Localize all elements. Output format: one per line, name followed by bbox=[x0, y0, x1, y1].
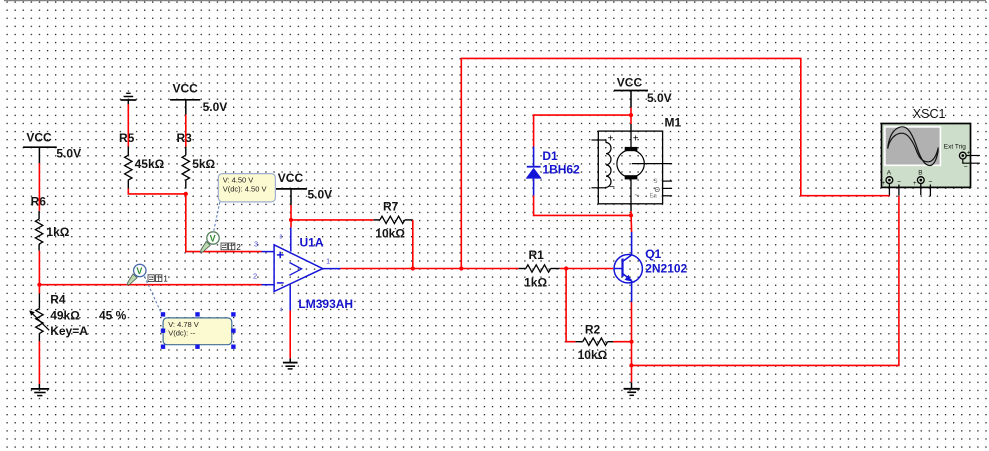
resistor R5 bbox=[119, 131, 165, 189]
svg-text:V: V bbox=[210, 233, 216, 243]
probe 2 tooltip bbox=[218, 174, 275, 202]
svg-text:10kΩ: 10kΩ bbox=[578, 348, 608, 362]
probe 2 (on node B wire) bbox=[200, 232, 219, 253]
svg-text:VCC: VCC bbox=[617, 76, 643, 90]
ground (above R5) bbox=[121, 93, 137, 104]
power VCC net symbol (feeds R3) bbox=[170, 82, 227, 115]
junction R7/output bbox=[411, 266, 415, 270]
svg-text:Ea: Ea bbox=[650, 194, 658, 200]
probe 1 label bbox=[148, 275, 168, 284]
svg-text:+: + bbox=[913, 181, 917, 187]
node A junction bbox=[37, 283, 41, 287]
svg-text:2: 2 bbox=[236, 243, 241, 252]
wire R2 to emitter bbox=[613, 341, 631, 343]
svg-text:8: 8 bbox=[280, 235, 283, 241]
ground (below R4) bbox=[31, 384, 49, 396]
diode D1 bbox=[526, 147, 580, 196]
wire scope A- to emitter node bbox=[632, 196, 899, 366]
svg-text:V: 4.50 V: V: 4.50 V bbox=[223, 176, 254, 185]
wire R7 to output node bbox=[412, 220, 414, 269]
node C junction (op-amp VCC / R7) bbox=[289, 218, 293, 222]
svg-text:−: − bbox=[928, 178, 932, 185]
svg-text:V(dc): 4.50 V: V(dc): 4.50 V bbox=[223, 185, 267, 194]
svg-text:+: + bbox=[608, 134, 614, 145]
svg-text:+: + bbox=[633, 134, 639, 145]
resistor R1 bbox=[519, 248, 560, 289]
svg-text:1BH62: 1BH62 bbox=[542, 162, 580, 176]
svg-text:R1: R1 bbox=[529, 248, 545, 262]
svg-text:3: 3 bbox=[254, 240, 258, 249]
power VCC net symbol (motor supply) bbox=[614, 76, 672, 108]
wire R1 to base node bbox=[560, 268, 613, 270]
svg-text:B: B bbox=[918, 169, 922, 176]
svg-text:LM393AH: LM393AH bbox=[298, 297, 353, 311]
svg-text:V: V bbox=[136, 266, 142, 276]
wire R5 bottom to node B bbox=[128, 189, 186, 194]
wire node B to op-amp pin 3 bbox=[186, 194, 262, 252]
svg-text:1kΩ: 1kΩ bbox=[46, 225, 69, 239]
svg-text:1: 1 bbox=[326, 257, 330, 266]
svg-text:R4: R4 bbox=[50, 292, 66, 306]
svg-text:1: 1 bbox=[163, 275, 168, 284]
svg-text:49kΩ: 49kΩ bbox=[50, 309, 80, 323]
svg-text:A: A bbox=[887, 169, 892, 176]
svg-text:45kΩ: 45kΩ bbox=[135, 157, 165, 171]
ground (op-amp) bbox=[283, 358, 298, 369]
svg-text:R3: R3 bbox=[177, 131, 193, 145]
svg-text:XSC1: XSC1 bbox=[913, 107, 946, 121]
svg-text:5.0V: 5.0V bbox=[308, 188, 333, 202]
svg-text:5kΩ: 5kΩ bbox=[192, 157, 215, 171]
svg-text:2N2102: 2N2102 bbox=[645, 262, 687, 276]
svg-text:−: − bbox=[897, 178, 901, 185]
transistor Q1 2N2102 bbox=[614, 232, 688, 302]
oscilloscope XSC1 bbox=[882, 107, 980, 197]
svg-text:D1: D1 bbox=[542, 149, 558, 163]
svg-text:U1A: U1A bbox=[300, 235, 324, 249]
power VCC net symbol (left, feeds R6) bbox=[23, 131, 81, 164]
svg-text:5.0V: 5.0V bbox=[203, 100, 228, 114]
wire VCC to R3 bbox=[185, 115, 187, 147]
svg-text:5.0V: 5.0V bbox=[647, 91, 672, 105]
wire node A to op-amp pin 2 bbox=[39, 284, 261, 286]
resistor R3 bbox=[177, 131, 216, 189]
svg-text:Q1: Q1 bbox=[645, 247, 661, 261]
svg-text:M1: M1 bbox=[665, 115, 682, 129]
svg-text:V(dc): --: V(dc): -- bbox=[168, 329, 196, 338]
svg-text:VCC: VCC bbox=[26, 131, 52, 145]
potentiometer R4 bbox=[29, 292, 126, 341]
svg-text:R7: R7 bbox=[383, 199, 399, 213]
resistor R2 bbox=[575, 323, 613, 363]
wire VCC to R6 bbox=[38, 163, 40, 211]
svg-text:+: + bbox=[882, 181, 886, 187]
resistor R7 bbox=[373, 199, 413, 240]
svg-text:S: S bbox=[654, 179, 658, 185]
wire output node to scope A+ bbox=[461, 58, 889, 268]
junction motor VCC / D1 bbox=[629, 113, 633, 117]
svg-text:−: − bbox=[609, 182, 615, 193]
wire op-amp ground bbox=[289, 310, 291, 358]
wire R6 to node A bbox=[38, 251, 40, 294]
probe 2 tooltip leader bbox=[214, 202, 220, 232]
svg-text:~: ~ bbox=[635, 193, 639, 200]
junction scope feed/output bbox=[459, 266, 463, 270]
svg-text:Key=A: Key=A bbox=[50, 324, 88, 338]
wire emitter to ground bbox=[631, 302, 633, 382]
wire output to R1 bbox=[341, 268, 519, 270]
probe 1 tooltip leader bbox=[145, 277, 164, 318]
svg-text:VCC: VCC bbox=[173, 82, 199, 96]
resistor R6 bbox=[31, 195, 70, 251]
op-amp U1A LM393AH bbox=[253, 227, 353, 313]
power VCC net symbol (op-amp supply) bbox=[275, 171, 332, 205]
svg-text:2: 2 bbox=[253, 272, 257, 281]
svg-text:R5: R5 bbox=[119, 131, 135, 145]
junction emitter/R2 bbox=[629, 340, 633, 344]
junction D1 / motor bottom bbox=[629, 213, 633, 217]
ground (emitter) bbox=[624, 382, 640, 395]
probe 1 tooltip (selected) bbox=[161, 312, 236, 349]
svg-text:10kΩ: 10kΩ bbox=[375, 226, 405, 240]
wire VCC to motor bbox=[630, 108, 632, 132]
svg-text:1kΩ: 1kΩ bbox=[524, 276, 547, 290]
probe 2 label bbox=[221, 243, 241, 252]
svg-text:Ext Trig: Ext Trig bbox=[944, 143, 966, 150]
svg-text:4: 4 bbox=[280, 308, 283, 314]
wire base node to R2 bbox=[566, 269, 575, 342]
wire motor to collector bbox=[630, 204, 633, 232]
svg-text:−: − bbox=[964, 164, 968, 171]
junction base node bbox=[564, 266, 568, 270]
svg-text:VCC: VCC bbox=[278, 171, 304, 185]
wire ground to R5 bbox=[127, 104, 129, 146]
wire R4 to ground bbox=[38, 341, 40, 384]
svg-text:45 %: 45 % bbox=[99, 309, 127, 323]
wire D1 top branch bbox=[534, 115, 631, 146]
svg-text:R6: R6 bbox=[31, 195, 47, 209]
svg-text:R2: R2 bbox=[585, 323, 601, 337]
probe 1 (on node A wire) bbox=[127, 264, 146, 285]
svg-text:5.0V: 5.0V bbox=[56, 147, 81, 161]
wire node C to R7 bbox=[291, 219, 373, 221]
wire D1 bottom branch bbox=[534, 196, 631, 216]
junction emitter/scope bbox=[629, 363, 633, 367]
node B junction bbox=[184, 192, 188, 196]
motor M1 bbox=[592, 115, 682, 204]
wire VCC to op-amp power pin bbox=[290, 205, 292, 228]
